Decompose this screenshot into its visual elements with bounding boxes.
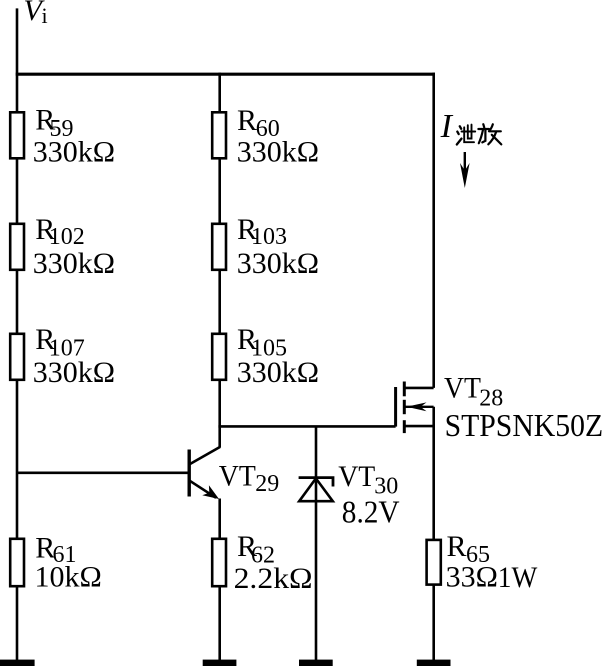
resistor R102 [10,224,24,270]
svg-text:R: R [447,530,467,563]
resistor R107 [10,334,24,380]
node Vi label [24,0,48,28]
ground left column [0,660,35,666]
CJK char fang (release) [478,124,501,144]
svg-text:330kΩ: 330kΩ [33,356,115,389]
label R102 [33,213,115,280]
svg-text:VT: VT [444,371,481,404]
label R107 [33,323,115,389]
wire left column vertical [16,8,19,660]
svg-text:R: R [237,104,257,137]
zener diode VT30 [299,478,333,502]
ground emitter column [203,660,237,666]
svg-text:i: i [42,3,48,28]
svg-text:330kΩ: 330kΩ [237,135,319,168]
svg-text:2.2kΩ: 2.2kΩ [234,562,313,595]
wire gate horizontal [218,425,395,428]
svg-text:330kΩ: 330kΩ [33,135,115,168]
svg-text:VT: VT [219,459,256,492]
ground zener column [299,660,333,666]
wire source vertical [432,407,435,660]
svg-text:33Ω: 33Ω [446,561,498,594]
arrow discharge current [460,152,470,188]
svg-text:330kΩ: 330kΩ [237,356,319,389]
label R103 [237,213,319,280]
label R59 [33,103,115,168]
svg-text:330kΩ: 330kΩ [237,247,319,280]
resistor R61 [10,539,24,586]
resistor R62 [212,539,226,586]
svg-text:VT: VT [338,460,375,493]
label R62 [234,530,313,595]
label VT29 [219,459,279,497]
resistor R60 [212,112,226,158]
wire VT29 base horizontal [17,471,189,474]
wire middle column vertical [218,73,221,448]
svg-text:STPSNK50Z: STPSNK50Z [445,407,603,443]
svg-text:8.2V: 8.2V [342,493,400,529]
ground source column [417,660,451,666]
svg-text:330kΩ: 330kΩ [33,247,115,280]
label R105 [237,323,319,389]
wire emitter column vertical [218,499,221,661]
label I discharge current [440,108,454,145]
resistor R105 [212,334,226,380]
wire zener column vertical [315,426,318,660]
wire drain vertical [432,73,435,388]
resistor R65 [427,540,441,585]
CJK char xie (leak) [457,125,475,145]
label R60 [237,104,319,169]
svg-text:1W: 1W [498,561,538,594]
wire top rail [16,73,435,76]
MOSFET VT28 [396,382,434,434]
resistor R103 [212,224,226,270]
label R65 [446,530,538,594]
resistor R59 [10,112,24,158]
label VT28 [444,371,603,443]
svg-text:10kΩ: 10kΩ [35,561,102,594]
label VT30 [338,460,399,529]
svg-text:I: I [440,108,454,145]
svg-text:29: 29 [255,471,279,497]
transistor VT29 [189,447,220,499]
label R61 [35,532,102,594]
